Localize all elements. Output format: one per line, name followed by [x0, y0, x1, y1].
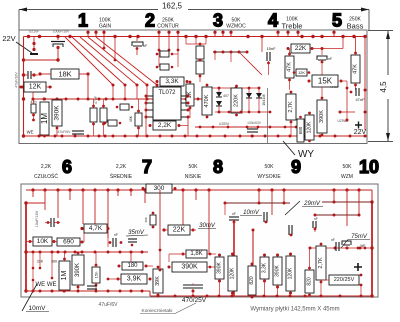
wire v160	[159, 250, 161, 270]
node row88 junctions	[206, 87, 261, 90]
wire bottom rail left	[26, 290, 150, 292]
wire row112	[215, 111, 270, 113]
resistor R5	[90, 108, 97, 122]
node	[189, 81, 192, 84]
node	[320, 281, 323, 284]
node	[287, 47, 290, 50]
wire	[205, 37, 207, 45]
wire pot drop	[107, 190, 109, 238]
node	[174, 187, 177, 190]
node	[251, 263, 254, 266]
node	[270, 188, 273, 191]
wire r40 out	[207, 266, 216, 268]
node	[290, 91, 293, 94]
node	[56, 127, 59, 130]
node	[182, 253, 185, 256]
node	[106, 188, 109, 191]
node	[333, 201, 336, 204]
wire 12K out	[46, 86, 52, 88]
node	[124, 98, 127, 101]
wire pot stub	[103, 33, 105, 37]
wire pot drop	[117, 190, 119, 196]
wire C2 bottom	[57, 47, 59, 60]
node	[49, 86, 52, 89]
svg-text:3,9K: 3,9K	[127, 276, 142, 283]
svg-text:4V7: 4V7	[223, 94, 229, 98]
svg-text:Wymiary płytki 142,5mm X 45mm: Wymiary płytki 142,5mm X 45mm	[250, 307, 339, 313]
node	[334, 135, 337, 138]
node	[308, 71, 311, 74]
node	[32, 267, 35, 270]
svg-text:CZUŁOŚĆ: CZUŁOŚĆ	[34, 172, 58, 180]
svg-text:12K: 12K	[298, 70, 305, 75]
node	[263, 295, 266, 298]
wire r48b	[320, 280, 322, 296]
wire pot2 drop	[177, 37, 179, 51]
resistor R10	[196, 61, 204, 74]
node	[63, 290, 66, 293]
node	[102, 105, 105, 108]
wire r14b	[138, 126, 140, 136]
node	[81, 188, 84, 191]
capacitor C2 100uF	[51, 42, 65, 48]
wire pot drop	[32, 190, 34, 197]
wire r45b	[277, 285, 279, 296]
svg-text:UZIEM: UZIEM	[219, 122, 229, 126]
node	[231, 253, 234, 256]
wire row215	[315, 214, 359, 216]
capacitor C7	[267, 52, 270, 61]
svg-text:8: 8	[213, 157, 223, 177]
svg-text:15n: 15n	[94, 272, 99, 279]
capacitor C17	[313, 221, 316, 228]
svg-text:690: 690	[63, 239, 74, 246]
node	[221, 31, 224, 34]
svg-text:75mV: 75mV	[351, 234, 368, 240]
wire pot drop	[82, 190, 84, 224]
node	[295, 126, 298, 129]
svg-text:WZMOC: WZMOC	[226, 24, 246, 30]
wire link	[186, 43, 206, 45]
node	[186, 80, 189, 83]
node	[178, 124, 181, 127]
wire r39 out	[207, 253, 216, 255]
top board outline	[19, 30, 367, 144]
resistor R50	[146, 184, 172, 193]
node	[39, 290, 42, 293]
node	[334, 247, 337, 250]
node	[116, 106, 119, 109]
node	[218, 111, 221, 114]
node	[332, 31, 335, 34]
node	[136, 47, 139, 50]
diode D4	[256, 93, 262, 98]
node	[168, 49, 171, 52]
svg-text:18K: 18K	[58, 70, 71, 79]
node	[320, 243, 323, 246]
node +22V right	[354, 122, 367, 137]
node	[158, 188, 161, 191]
node	[56, 35, 59, 38]
wire	[199, 74, 201, 82]
node	[24, 289, 27, 292]
wire r29 out	[80, 241, 84, 243]
node	[251, 135, 254, 138]
wire r14	[138, 99, 140, 113]
wire r32 out	[190, 229, 196, 231]
node	[152, 226, 155, 229]
node	[109, 241, 112, 244]
resistor R19	[296, 69, 307, 76]
svg-text:180: 180	[127, 263, 138, 269]
resistor R16	[108, 120, 117, 126]
node	[206, 98, 209, 101]
wire pot stub	[168, 33, 170, 37]
wire pot drop	[208, 190, 210, 255]
wire r8 link2	[177, 50, 179, 67]
resistor R41	[215, 257, 224, 279]
node	[251, 135, 254, 138]
node	[218, 111, 221, 114]
node	[284, 126, 287, 129]
node	[177, 49, 180, 52]
wire row252	[26, 251, 148, 253]
node	[51, 251, 54, 254]
resistor R8	[160, 64, 169, 70]
node	[364, 247, 367, 250]
svg-text:10mV: 10mV	[243, 210, 260, 216]
wire 18K down	[87, 74, 89, 99]
wire	[230, 52, 232, 62]
wire d4	[258, 88, 260, 93]
wire mid drop2	[252, 230, 254, 296]
node	[192, 290, 195, 293]
node	[171, 98, 174, 101]
wire right thick rail	[371, 202, 373, 296]
resistor R36	[122, 262, 143, 270]
node	[321, 61, 324, 64]
node	[321, 247, 324, 250]
node	[360, 284, 363, 287]
capacitor C21	[183, 285, 203, 288]
svg-text:1N4148: 1N4148	[262, 94, 266, 105]
resistor C22	[329, 275, 359, 285]
node	[32, 279, 35, 282]
svg-text:CONTUR: CONTUR	[157, 24, 179, 30]
label 29mV	[302, 201, 323, 207]
node	[235, 85, 238, 88]
node	[86, 31, 89, 34]
svg-text:Treble: Treble	[282, 22, 303, 31]
capacitor C9	[356, 88, 359, 96]
wire bottom rail right	[150, 295, 372, 297]
wire pot drop	[57, 190, 59, 218]
svg-text:390K: 390K	[319, 110, 325, 123]
svg-text:WY: WY	[298, 149, 314, 160]
node	[31, 188, 34, 191]
node	[98, 135, 101, 138]
wire c6	[136, 37, 138, 42]
dimension line 162,5	[19, 1, 369, 30]
node	[141, 251, 144, 254]
resistor R47	[305, 270, 314, 293]
node	[141, 290, 144, 293]
node	[346, 119, 349, 122]
wire R6 b	[103, 122, 105, 136]
node	[218, 280, 221, 283]
svg-text:120K: 120K	[288, 267, 294, 279]
wire pot drop	[271, 190, 273, 215]
svg-text:100uF/16V: 100uF/16V	[53, 30, 70, 34]
svg-text:50K: 50K	[189, 164, 199, 170]
node	[54, 135, 57, 138]
wire r37 in	[108, 278, 121, 280]
wire	[185, 37, 187, 45]
wire v347	[346, 88, 348, 112]
node	[263, 254, 266, 257]
node plus 220uF	[354, 263, 362, 271]
node	[350, 91, 353, 94]
wire 15K out	[341, 80, 347, 82]
capacitor C16	[289, 225, 292, 235]
node	[98, 98, 101, 101]
node	[32, 114, 35, 117]
node	[104, 135, 107, 138]
node	[158, 49, 161, 52]
node	[77, 98, 80, 101]
node	[152, 212, 155, 215]
node	[214, 51, 217, 54]
node	[246, 51, 249, 54]
node	[56, 98, 59, 101]
node	[61, 135, 64, 138]
node	[231, 295, 234, 298]
wire left rail	[23, 37, 25, 137]
node	[276, 254, 279, 257]
wire r35b	[95, 283, 97, 291]
resistor R24	[286, 94, 296, 120]
node	[104, 122, 107, 125]
node	[146, 135, 149, 138]
node	[39, 251, 42, 254]
wire r28 in	[26, 241, 33, 243]
wire 47n b	[33, 113, 35, 120]
wire right rail inner	[364, 37, 366, 131]
node	[117, 278, 120, 281]
node	[124, 135, 127, 138]
node	[43, 98, 46, 101]
svg-text:NISKIE: NISKIE	[185, 174, 202, 180]
node	[363, 35, 366, 38]
wire r41b	[219, 279, 221, 296]
capacitor C14	[229, 217, 239, 220]
node	[209, 253, 212, 256]
node	[93, 188, 96, 191]
resistor R1	[24, 82, 46, 92]
node	[288, 53, 291, 56]
node	[308, 80, 311, 83]
diode D3	[246, 93, 252, 98]
node	[130, 290, 133, 293]
svg-text:390K: 390K	[54, 105, 61, 121]
svg-text:22K: 22K	[295, 45, 307, 52]
svg-text:470/25V: 470/25V	[182, 297, 207, 304]
node	[171, 53, 174, 56]
capacitor C13	[128, 239, 137, 242]
wire row112 r	[340, 111, 355, 113]
node	[43, 135, 46, 138]
wire r34b	[77, 285, 79, 291]
wire r28-r29	[52, 241, 57, 243]
svg-text:47uF/6V: 47uF/6V	[58, 130, 72, 134]
node	[95, 284, 98, 287]
node	[95, 264, 98, 267]
node	[22, 85, 25, 88]
node	[112, 98, 115, 101]
svg-text:39K: 39K	[155, 276, 161, 286]
node	[64, 251, 67, 254]
wire r21 top	[355, 37, 357, 56]
svg-text:2,7K: 2,7K	[318, 257, 324, 269]
wire pot drop	[358, 190, 360, 215]
node 22V supply top	[2, 34, 38, 54]
node	[145, 265, 148, 268]
node	[162, 228, 165, 231]
diode D1	[216, 92, 222, 97]
svg-text:390K: 390K	[75, 263, 81, 277]
svg-text:7: 7	[142, 157, 152, 177]
resistor R12	[186, 84, 194, 106]
node	[304, 295, 307, 298]
resistor R26	[305, 115, 314, 140]
node	[156, 66, 159, 69]
resistor R33	[59, 261, 70, 290]
wire pot drop	[182, 190, 184, 225]
node	[94, 251, 97, 254]
wire C2 top	[57, 37, 59, 41]
svg-text:WYSOKIE: WYSOKIE	[257, 174, 281, 180]
node	[156, 53, 159, 56]
wire pot drop	[94, 190, 96, 232]
svg-text:2,2K: 2,2K	[41, 164, 52, 170]
node	[199, 126, 202, 129]
node	[235, 114, 238, 117]
node	[206, 116, 209, 119]
node	[113, 35, 116, 38]
node	[239, 135, 242, 138]
node	[81, 251, 84, 254]
wire R5	[93, 99, 95, 108]
wire row99	[33, 98, 210, 100]
node	[199, 59, 202, 62]
svg-text:nF: nF	[114, 233, 118, 237]
node	[157, 294, 160, 297]
node	[209, 135, 212, 138]
resistor R39	[186, 250, 207, 258]
wire d1	[218, 88, 220, 92]
svg-text:ŚREDNIE: ŚREDNIE	[110, 172, 133, 180]
wire r21 b	[355, 83, 357, 90]
node	[136, 35, 139, 38]
node	[260, 35, 263, 38]
node	[32, 48, 35, 51]
wire pot stub	[158, 33, 160, 37]
node	[119, 122, 122, 125]
resistor R23	[231, 88, 242, 113]
svg-text:nF: nF	[328, 57, 332, 61]
node	[289, 295, 292, 298]
node	[174, 295, 177, 298]
node	[136, 135, 139, 138]
node	[258, 111, 261, 114]
label koniecznie	[140, 303, 196, 314]
wire pot stub	[230, 33, 232, 37]
node	[149, 278, 152, 281]
node	[224, 202, 227, 205]
node	[370, 200, 373, 203]
node	[149, 124, 152, 127]
svg-text:3,3K: 3,3K	[262, 262, 268, 273]
node	[354, 84, 357, 87]
wire v40	[39, 252, 41, 268]
node	[257, 126, 260, 129]
node	[194, 188, 197, 191]
node	[308, 267, 311, 270]
node	[68, 188, 71, 191]
svg-text:2,7K: 2,7K	[288, 101, 294, 113]
svg-text:45K: 45K	[129, 115, 133, 122]
wire thick mid drop	[233, 220, 235, 296]
wire 22K to v	[312, 48, 343, 50]
node	[364, 89, 367, 92]
wire v343	[342, 37, 344, 49]
resistor R18	[285, 56, 294, 78]
node	[349, 135, 352, 138]
svg-text:2: 2	[145, 11, 155, 31]
resistor R22	[202, 87, 212, 115]
wire c6b	[136, 47, 138, 55]
op-amp U1 pins	[147, 96, 187, 117]
node	[290, 121, 293, 124]
node	[229, 31, 232, 34]
svg-text:820: 820	[249, 276, 255, 285]
svg-text:300: 300	[154, 185, 165, 192]
resistor R7	[160, 51, 169, 57]
svg-text:12K: 12K	[29, 84, 42, 91]
wire r36 in	[130, 252, 132, 262]
wire top rail	[24, 36, 366, 38]
wire r30 left leg	[83, 233, 85, 242]
node	[92, 105, 95, 108]
node	[47, 221, 50, 224]
node	[189, 107, 192, 110]
node	[102, 31, 105, 34]
resistor R14	[135, 113, 142, 126]
svg-text:220/25V: 220/25V	[334, 277, 355, 283]
svg-text:390K: 390K	[217, 262, 223, 274]
node	[51, 290, 54, 293]
wire pot drop	[44, 190, 46, 210]
resistor R35	[92, 267, 100, 283]
dimension line 4,5	[368, 31, 393, 142]
resistor R25	[317, 100, 327, 133]
resistor R3	[40, 102, 49, 135]
node	[32, 251, 35, 254]
svg-text:3: 3	[213, 11, 223, 31]
node	[32, 119, 35, 122]
node	[159, 249, 162, 252]
svg-text:1M: 1M	[40, 113, 49, 124]
